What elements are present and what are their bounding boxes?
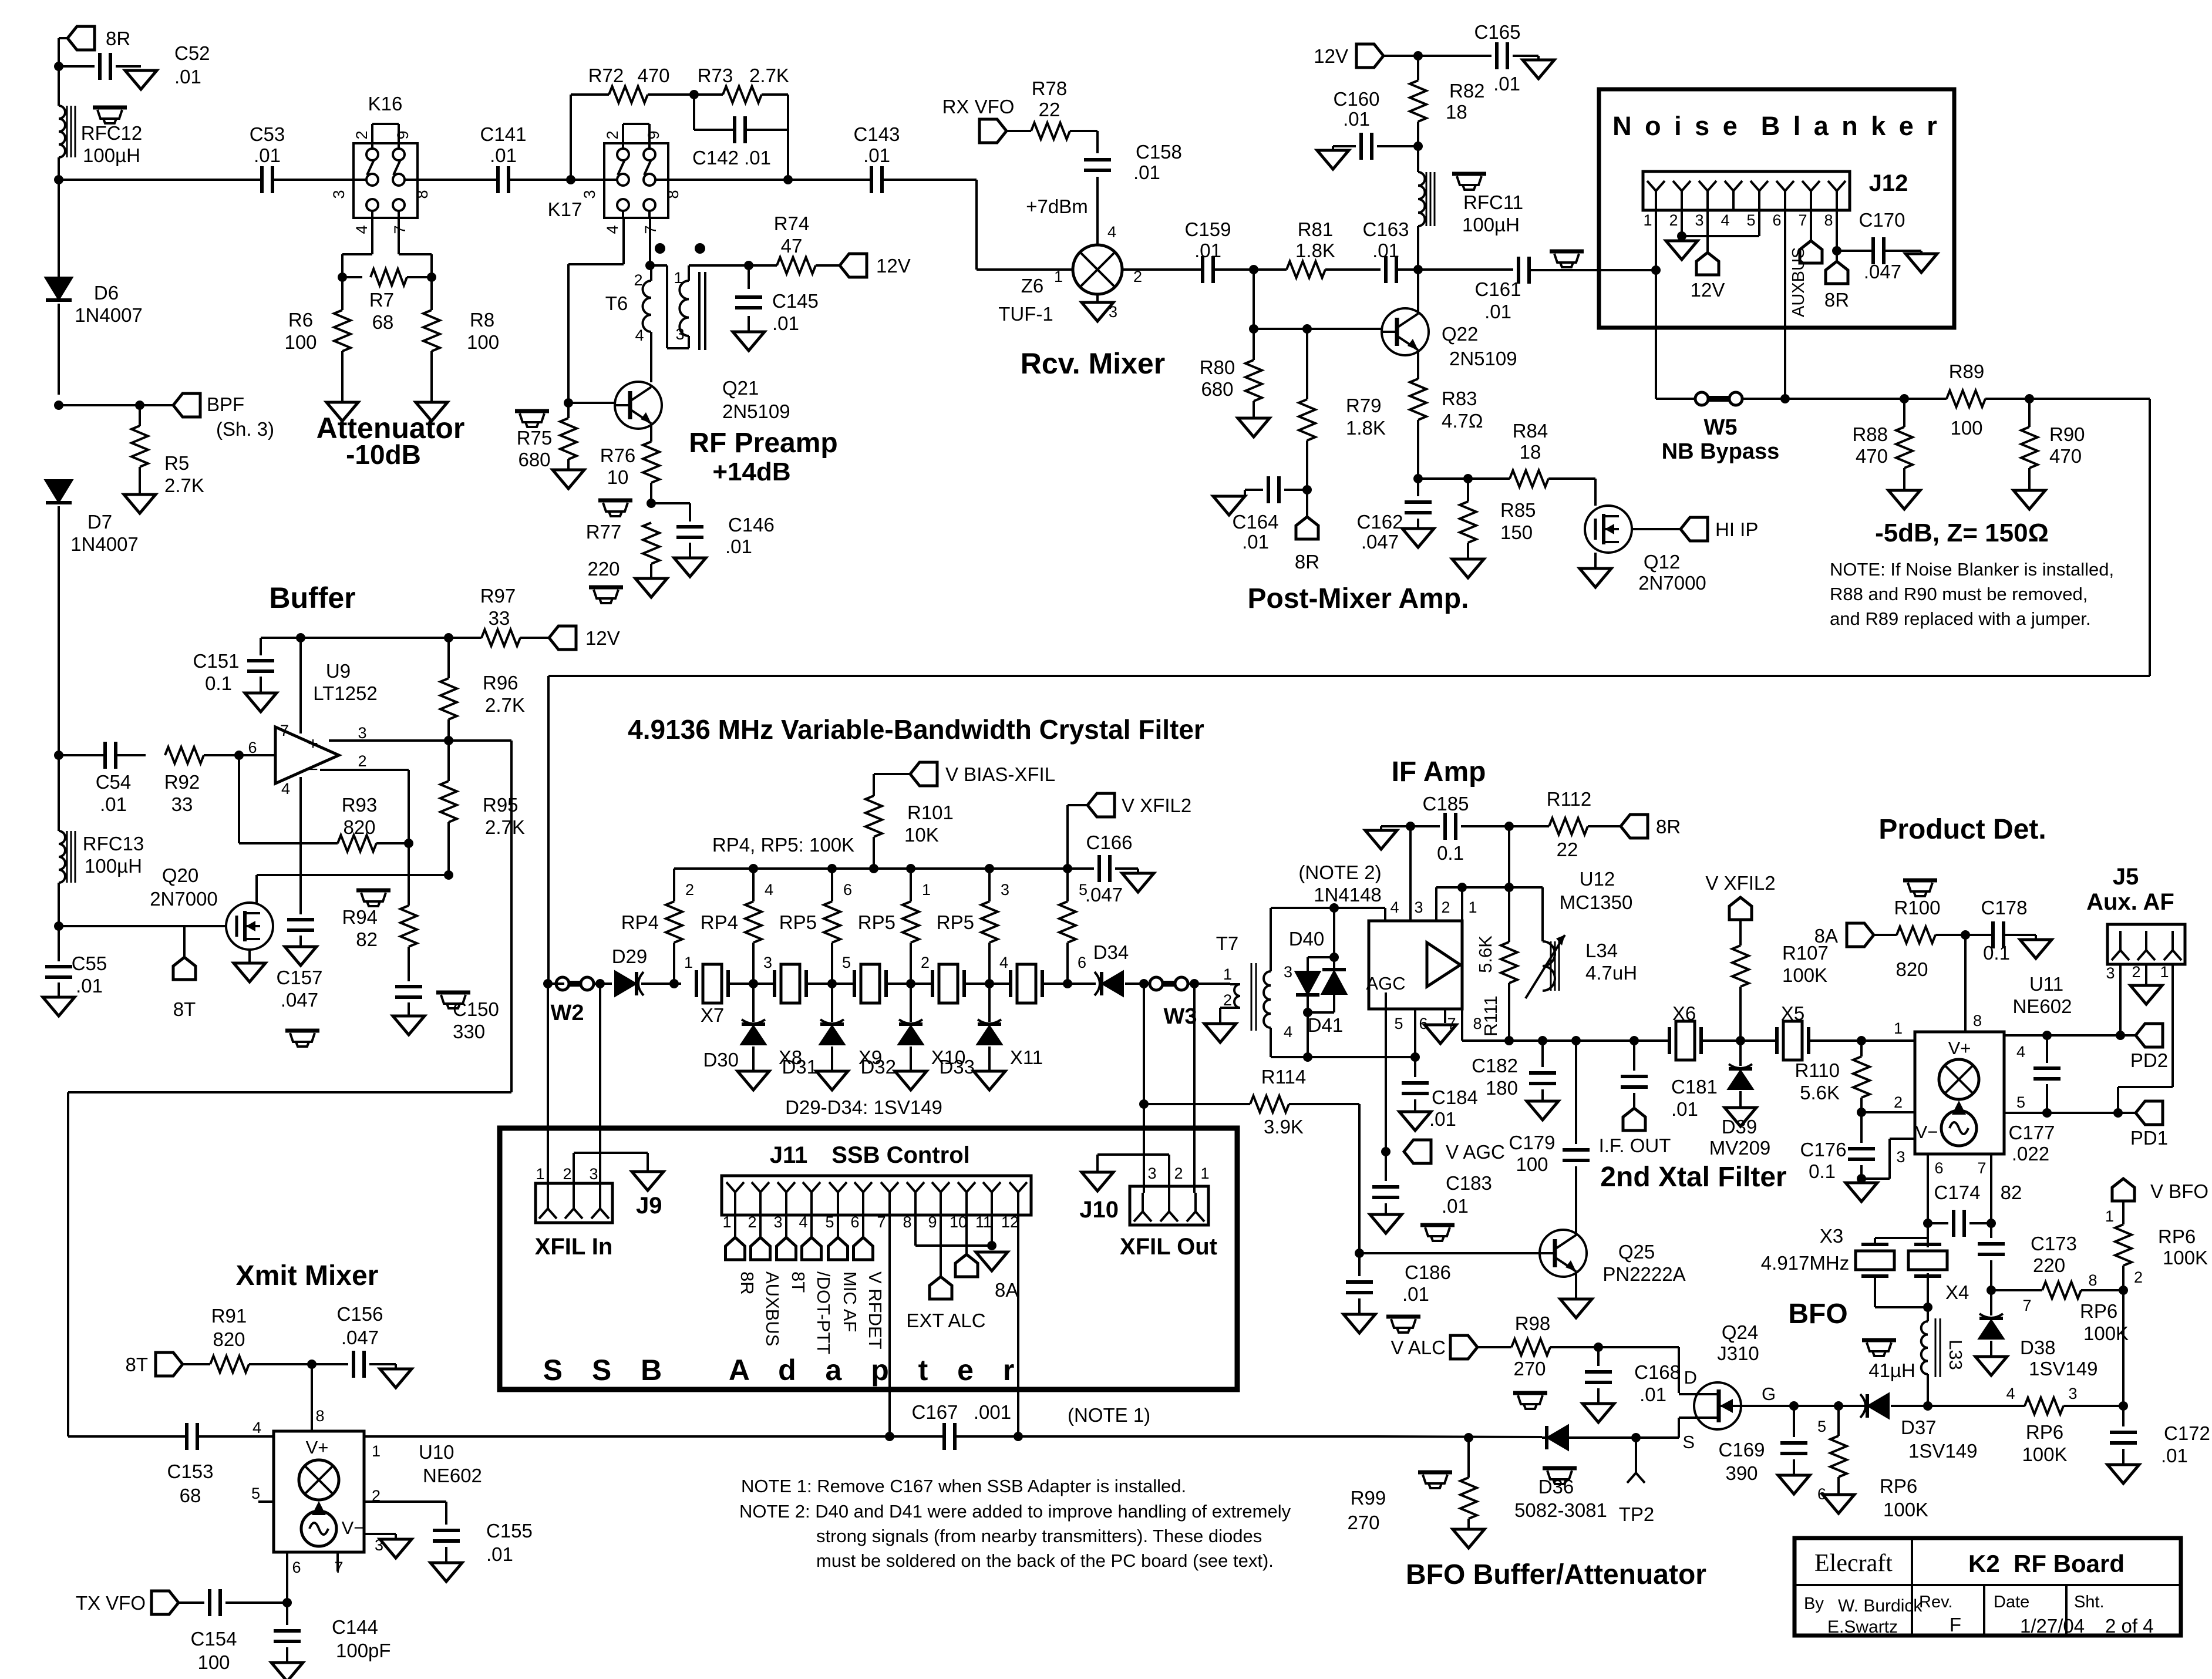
svg-text:C157: C157	[277, 967, 323, 988]
svg-text:R75: R75	[517, 427, 553, 449]
svg-text:D32: D32	[860, 1056, 896, 1078]
svg-text:HI IP: HI IP	[1715, 519, 1758, 540]
svg-text:2: 2	[921, 954, 930, 971]
svg-text:4: 4	[635, 327, 644, 344]
wire pin6 stub	[1414, 1009, 1416, 1057]
svg-text:J310: J310	[1717, 1342, 1759, 1364]
node R76-R77	[647, 499, 656, 508]
wire D34 to W3	[1125, 982, 1149, 985]
svg-text:-10dB: -10dB	[346, 439, 421, 470]
connector PD2	[2136, 1024, 2163, 1047]
svg-text:2N5109: 2N5109	[1449, 348, 1517, 369]
ground below J11 pin11	[976, 1252, 1008, 1271]
svg-text:C173: C173	[2031, 1233, 2077, 1254]
svg-text:D37: D37	[1901, 1416, 1937, 1438]
capacitor C142 .01	[693, 95, 695, 130]
node J5 pin3	[2116, 1031, 2125, 1040]
svg-text:3.9K: 3.9K	[1264, 1116, 1304, 1138]
capacitor C186 .01	[1358, 1253, 1361, 1276]
varactor D31	[831, 984, 833, 1022]
svg-text:4: 4	[252, 1419, 261, 1436]
wire X11-D34	[1042, 982, 1096, 985]
svg-text:8: 8	[903, 1213, 911, 1231]
ground below C157	[285, 947, 317, 965]
svg-text:4: 4	[1390, 899, 1399, 916]
connector EXT ALC	[930, 1277, 952, 1299]
svg-text:820: 820	[343, 816, 375, 838]
svg-text:V XFIL2: V XFIL2	[1122, 795, 1191, 816]
svg-text:C186: C186	[1405, 1261, 1451, 1283]
node J9 pin3 tap	[595, 979, 605, 988]
node T7 pin4 line	[1410, 1052, 1420, 1062]
svg-text:4: 4	[604, 225, 621, 234]
svg-text:R97: R97	[480, 585, 516, 607]
svg-text:150: 150	[1500, 521, 1533, 543]
ground below Q25	[1560, 1299, 1592, 1318]
svg-text:W3: W3	[1164, 1004, 1197, 1029]
svg-text:R100: R100	[1894, 897, 1941, 918]
wire Q21 base stub	[568, 402, 615, 404]
svg-text:4: 4	[765, 881, 773, 899]
IC U11 NE602	[1915, 1032, 2004, 1154]
svg-text:10: 10	[607, 466, 629, 488]
resistor R5 2.7K	[139, 405, 141, 426]
diode D34 1SV149	[1103, 972, 1123, 995]
J12 pin 8	[1828, 181, 1837, 191]
ground below D30	[738, 1071, 769, 1090]
svg-text:33: 33	[171, 793, 193, 815]
svg-text:7: 7	[877, 1213, 886, 1231]
J11 pin3 connector 8T	[785, 1215, 787, 1237]
wire U10 pin5 stub	[258, 1500, 274, 1503]
transistor Q22 2N5109	[1382, 308, 1429, 355]
wire C163 to C161	[1396, 268, 1513, 271]
node T6 top	[645, 261, 655, 270]
connector I.F. OUT	[1623, 1108, 1645, 1130]
svg-text:2: 2	[1223, 991, 1232, 1009]
svg-text:.01: .01	[1493, 73, 1520, 95]
svg-text:4: 4	[353, 225, 371, 234]
svg-text:MC1350: MC1350	[1560, 891, 1633, 913]
connector 8R in NB	[1836, 251, 1838, 261]
svg-text:.01: .01	[1402, 1283, 1429, 1305]
wire L33 top to X4	[1927, 1287, 1929, 1321]
resistor RP column 1	[673, 869, 675, 901]
svg-text:100K: 100K	[2083, 1323, 2129, 1344]
node pin6 junction	[1780, 394, 1790, 403]
wire Q22 collector	[1417, 270, 1419, 314]
wire J5 pin1 jog	[2171, 964, 2174, 1087]
svg-text:R112: R112	[1547, 788, 1591, 810]
wire pin2 pin1 staple	[1436, 886, 1543, 889]
svg-text:R80: R80	[1200, 356, 1235, 378]
node R72-R73	[689, 90, 699, 99]
svg-text:5: 5	[251, 1485, 260, 1502]
svg-text:5: 5	[842, 954, 851, 971]
svg-text:1.8K: 1.8K	[1346, 417, 1386, 439]
svg-text:1: 1	[684, 954, 693, 971]
svg-text:3: 3	[675, 325, 684, 343]
connector J10 XFIL Out	[1130, 1186, 1208, 1225]
ground below D39	[1725, 1108, 1756, 1126]
svg-text:1N4007: 1N4007	[70, 533, 139, 555]
wire R73 down to main	[787, 95, 789, 180]
svg-text:3: 3	[773, 1213, 782, 1231]
resistor R96 2.7K	[447, 638, 450, 678]
svg-text:8R: 8R	[737, 1271, 757, 1295]
svg-text:2: 2	[604, 130, 621, 139]
capacitor C158	[1096, 131, 1099, 153]
wire J9 pin3	[599, 984, 601, 1190]
title block outer box	[1794, 1538, 2181, 1636]
svg-text:1: 1	[1468, 899, 1477, 916]
svg-text:LT1252: LT1252	[313, 682, 377, 704]
svg-text:100: 100	[467, 331, 499, 353]
wire J5 pin3 down	[2119, 964, 2122, 1035]
svg-text:J9: J9	[636, 1193, 662, 1219]
wire D29 to X7	[641, 982, 681, 985]
J9 pin 2	[573, 1190, 575, 1209]
connector AUXBUS	[1800, 241, 1822, 263]
resistor R91 820	[183, 1363, 210, 1365]
svg-text:2: 2	[358, 752, 366, 770]
node R91 C156	[307, 1360, 317, 1369]
node NB input	[1651, 265, 1661, 275]
svg-text:R96: R96	[483, 672, 519, 694]
wire X4 top to C174 line	[1927, 1223, 1929, 1238]
svg-text:R90: R90	[2049, 423, 2085, 445]
svg-text:6: 6	[292, 1559, 301, 1576]
svg-text:0.1: 0.1	[1437, 842, 1464, 864]
svg-text:C160: C160	[1334, 88, 1380, 110]
connector 8T at Q20	[183, 926, 186, 957]
svg-text:Rcv. Mixer: Rcv. Mixer	[1021, 347, 1165, 380]
resistor R75 680	[567, 403, 570, 418]
relay K16	[353, 143, 418, 218]
svg-text:T6: T6	[605, 292, 628, 314]
wire K17 to C143	[668, 179, 871, 181]
svg-text:R85: R85	[1500, 499, 1536, 521]
svg-text:C153: C153	[167, 1461, 214, 1482]
wire K17 pin4 to Q21 base	[622, 217, 625, 264]
svg-text:5: 5	[1817, 1418, 1826, 1435]
svg-text:C155: C155	[486, 1520, 533, 1542]
svg-text:J10: J10	[1079, 1197, 1119, 1223]
ground at U12 pin7	[1444, 1009, 1446, 1023]
svg-text:RP6: RP6	[1880, 1475, 1917, 1497]
resistor R6 100	[341, 277, 344, 310]
crystal X10	[931, 970, 934, 997]
svg-text:2nd Xtal Filter: 2nd Xtal Filter	[1600, 1162, 1786, 1193]
svg-text:C141: C141	[480, 123, 527, 145]
capacitor C161	[1517, 257, 1520, 284]
varactor D38 1SV149	[1990, 1290, 1992, 1315]
svg-text:5: 5	[1746, 211, 1755, 229]
svg-text:.047: .047	[1361, 531, 1399, 553]
svg-text:TX VFO: TX VFO	[76, 1592, 146, 1614]
svg-text:D7: D7	[87, 511, 112, 533]
svg-text:X3: X3	[1820, 1225, 1843, 1247]
svg-text:+7dBm: +7dBm	[1026, 196, 1088, 217]
svg-text:5: 5	[825, 1213, 834, 1231]
svg-text:.01: .01	[1133, 161, 1160, 183]
J11 pin 1	[726, 1182, 735, 1192]
svg-text:0.1: 0.1	[205, 672, 232, 694]
resistor R8 100	[430, 277, 433, 310]
svg-text:V AGC: V AGC	[1446, 1141, 1505, 1163]
node R93 right	[404, 839, 413, 848]
svg-text:100pF: 100pF	[336, 1640, 391, 1661]
svg-text:2: 2	[2132, 963, 2140, 981]
wire C156 node to U10 pin8	[311, 1364, 313, 1431]
J11 pin 3	[777, 1182, 786, 1192]
svg-text:R84: R84	[1513, 420, 1548, 442]
J11 pin2 connector AUXBUS	[759, 1215, 762, 1237]
svg-text:1: 1	[1200, 1165, 1209, 1182]
capacitor C163	[1384, 256, 1388, 283]
wire J12 pin7	[1810, 210, 1812, 241]
svg-text:V BIAS-XFIL: V BIAS-XFIL	[945, 763, 1055, 785]
svg-text:4: 4	[1284, 1023, 1292, 1041]
wire J9 pin1	[547, 984, 549, 1190]
svg-text:R8: R8	[470, 309, 494, 331]
svg-text:C53: C53	[250, 123, 285, 145]
wire C161 into NB box	[1529, 269, 1657, 271]
node R5 tap	[135, 401, 144, 410]
svg-text:R92: R92	[164, 771, 200, 793]
svg-text:2: 2	[2134, 1268, 2143, 1286]
svg-text:8R: 8R	[1824, 289, 1849, 311]
svg-text:100: 100	[1950, 417, 1982, 439]
wire X3 jogs	[1874, 1238, 1876, 1244]
node C167 left	[885, 1432, 894, 1441]
J11 pin 6	[854, 1182, 863, 1192]
BFO carrier line to D36	[1542, 1436, 1679, 1439]
svg-text:7: 7	[280, 722, 289, 739]
wire W5 to R89	[1742, 398, 1947, 400]
svg-text:EXT ALC: EXT ALC	[906, 1310, 985, 1331]
wire C53 to K16	[272, 179, 353, 181]
svg-text:X7: X7	[701, 1004, 724, 1026]
ground below C169	[1778, 1475, 1810, 1494]
capacitor C179 100	[1563, 1148, 1590, 1152]
resistor R81 1.8K	[1287, 261, 1325, 278]
svg-text:.01: .01	[1194, 240, 1221, 261]
diode D7 1N4007	[46, 480, 72, 502]
svg-text:.01: .01	[863, 144, 890, 166]
svg-text:R93: R93	[342, 794, 378, 816]
ground below R80	[1238, 418, 1270, 437]
node R95 bottom	[444, 870, 453, 880]
svg-text:1N4007: 1N4007	[75, 304, 143, 326]
svg-text:C145: C145	[772, 290, 819, 312]
svg-text:41µH: 41µH	[1868, 1360, 1915, 1381]
svg-text:C164: C164	[1233, 511, 1279, 533]
wire J11 pin7 to C167	[888, 1215, 891, 1436]
node Q22 collector junction	[1413, 265, 1423, 274]
J10 pin 3	[1142, 1193, 1144, 1212]
svg-text:.047: .047	[1085, 884, 1123, 906]
ground below R85	[1452, 559, 1484, 578]
svg-text:RP5: RP5	[937, 911, 974, 933]
wire X7-X8	[728, 982, 775, 985]
capacitor C177 .022	[2046, 1035, 2048, 1063]
wire J10 pin2 ground jog	[1168, 1155, 1170, 1193]
svg-text:8: 8	[413, 190, 431, 198]
svg-text:3: 3	[1147, 1165, 1156, 1182]
node C181 tap	[1629, 1036, 1639, 1045]
svg-text:AGC: AGC	[1366, 973, 1405, 994]
svg-text:R111: R111	[1480, 995, 1501, 1037]
wire Q20 gate	[59, 925, 226, 927]
node C170	[1832, 246, 1841, 255]
svg-text:BFO Buffer/Attenuator: BFO Buffer/Attenuator	[1406, 1559, 1706, 1590]
svg-text:100K: 100K	[1883, 1499, 1928, 1520]
svg-text:8R: 8R	[1656, 816, 1681, 837]
resistor R88 470	[1903, 399, 1905, 427]
wire Q24 gate out	[1741, 1405, 1867, 1407]
svg-text:12V: 12V	[876, 255, 911, 277]
svg-text:R95: R95	[483, 794, 519, 816]
capacitor C150 330	[395, 985, 422, 988]
svg-text:RX VFO: RX VFO	[942, 96, 1015, 117]
J11 pin 8	[907, 1182, 915, 1192]
ground below C172	[2107, 1465, 2139, 1483]
svg-text:D33: D33	[939, 1056, 975, 1078]
resistor R90 470	[2028, 399, 2031, 427]
svg-text:C154: C154	[191, 1628, 237, 1650]
node C164 junction	[1302, 485, 1312, 494]
svg-text:3: 3	[581, 190, 598, 198]
svg-text:R81: R81	[1298, 218, 1334, 240]
svg-text:RP4: RP4	[701, 911, 738, 933]
ground at C170	[1905, 254, 1937, 272]
svg-text:9: 9	[394, 130, 412, 139]
svg-text:must be soldered on the back o: must be soldered on the back of the PC b…	[816, 1550, 1274, 1571]
svg-text:2: 2	[1669, 211, 1678, 229]
svg-text:C168: C168	[1634, 1361, 1681, 1383]
ground below C176	[1846, 1183, 1877, 1202]
varactor D39 MV209	[1739, 1041, 1742, 1066]
wire J11 pin11	[991, 1215, 993, 1246]
J12 pin 3	[1699, 181, 1708, 191]
svg-text:2.7K: 2.7K	[485, 694, 525, 716]
wire U11 pin3 jog	[1861, 1177, 1890, 1180]
svg-text:R72: R72	[588, 65, 624, 86]
capacitor C55	[58, 926, 60, 961]
capacitor C157 .047	[299, 906, 302, 914]
svg-text:RFC13: RFC13	[83, 833, 144, 854]
node BPF tap	[54, 401, 63, 410]
varactor D32	[910, 984, 912, 1022]
resistor R73 2.7K	[694, 93, 723, 96]
svg-text:3: 3	[763, 954, 772, 971]
svg-text:680: 680	[518, 449, 550, 470]
svg-text:Post-Mixer Amp.: Post-Mixer Amp.	[1248, 583, 1469, 614]
capacitor C176 0.1	[1860, 1112, 1863, 1143]
svg-text:390: 390	[1725, 1462, 1758, 1484]
node D33	[985, 979, 994, 988]
wire X10-X11	[964, 982, 1011, 985]
svg-text:3: 3	[1414, 899, 1423, 916]
svg-text:E.Swartz: E.Swartz	[1827, 1617, 1898, 1637]
ground below C186	[1344, 1314, 1375, 1333]
wire buffer 12V rail	[261, 637, 482, 639]
svg-text:2.7K: 2.7K	[749, 65, 789, 86]
resistor R89 100	[1947, 391, 1985, 407]
diode D40 1N4148	[1271, 907, 1385, 909]
svg-text:8T: 8T	[788, 1271, 809, 1293]
capacitor C181 .01	[1633, 1041, 1635, 1071]
J11 pin 10	[958, 1182, 967, 1192]
svg-text:R101: R101	[907, 802, 954, 823]
wire J12 pin1 down to W5	[1655, 210, 1657, 399]
node D31	[827, 979, 837, 988]
ground below T7 pin2	[1204, 1024, 1236, 1042]
wire T7 pin4 down	[1270, 1028, 1272, 1057]
wire R84 to Q12 gate	[1594, 479, 1597, 506]
svg-text:.01: .01	[1671, 1098, 1698, 1120]
connector V AGC	[1381, 1147, 1391, 1156]
svg-text:X6: X6	[1672, 1002, 1696, 1024]
node main line left	[54, 175, 63, 184]
svg-text:Q25: Q25	[1618, 1241, 1655, 1263]
wires K16 pins 4,7 to pad	[371, 217, 373, 254]
svg-text:C177: C177	[2009, 1122, 2055, 1143]
wire Q24 source	[1678, 1418, 1680, 1438]
resistor R76 10	[643, 442, 659, 483]
wire U11 pin6 down	[1927, 1154, 1929, 1223]
transistor Q12 2N7000 mosfet	[1585, 506, 1632, 553]
svg-text:V−: V−	[1915, 1122, 1938, 1142]
svg-text:RP4, RP5: 100K: RP4, RP5: 100K	[712, 834, 854, 856]
J11 pin 2	[752, 1182, 760, 1192]
ground below Q20	[234, 963, 265, 982]
svg-text:C183: C183	[1446, 1172, 1492, 1194]
svg-text:4: 4	[1721, 211, 1729, 229]
svg-text:R7: R7	[369, 289, 394, 311]
svg-text:.047: .047	[1864, 261, 1901, 282]
box SSB Adapter	[500, 1128, 1237, 1389]
wire X8-X9	[806, 982, 854, 985]
resistor R101 10K	[866, 796, 882, 837]
svg-text:2.7K: 2.7K	[485, 816, 525, 838]
svg-text:5: 5	[2016, 1093, 2025, 1111]
svg-text:.01: .01	[1242, 531, 1269, 553]
svg-text:V XFIL2: V XFIL2	[1705, 872, 1775, 894]
node RP6-2	[2119, 1286, 2128, 1295]
diode D37 1SV149	[1868, 1394, 1888, 1418]
ground at U10 pin3	[380, 1539, 412, 1558]
svg-text:C182: C182	[1472, 1055, 1518, 1076]
wire BPF	[59, 404, 173, 406]
svg-text:/DOT-PTT: /DOT-PTT	[813, 1271, 834, 1354]
wire J11 pin10	[965, 1215, 968, 1254]
wire R98 to Q24 drain	[1598, 1346, 1679, 1348]
jumper W2	[556, 977, 569, 990]
capacitor C178 0.1	[1965, 934, 1993, 936]
wire U10 pin7 stub	[336, 1552, 339, 1572]
crystal X6	[1654, 1039, 1669, 1042]
svg-text:9: 9	[928, 1213, 937, 1231]
J11 pin 11	[983, 1182, 992, 1192]
svg-text:J12: J12	[1869, 170, 1908, 196]
capacitor C167 .001	[890, 1435, 944, 1438]
ground below C55	[43, 997, 75, 1016]
capacitor C141	[496, 166, 500, 193]
svg-text:T7: T7	[1216, 933, 1239, 954]
svg-text:.01: .01	[1429, 1108, 1456, 1130]
